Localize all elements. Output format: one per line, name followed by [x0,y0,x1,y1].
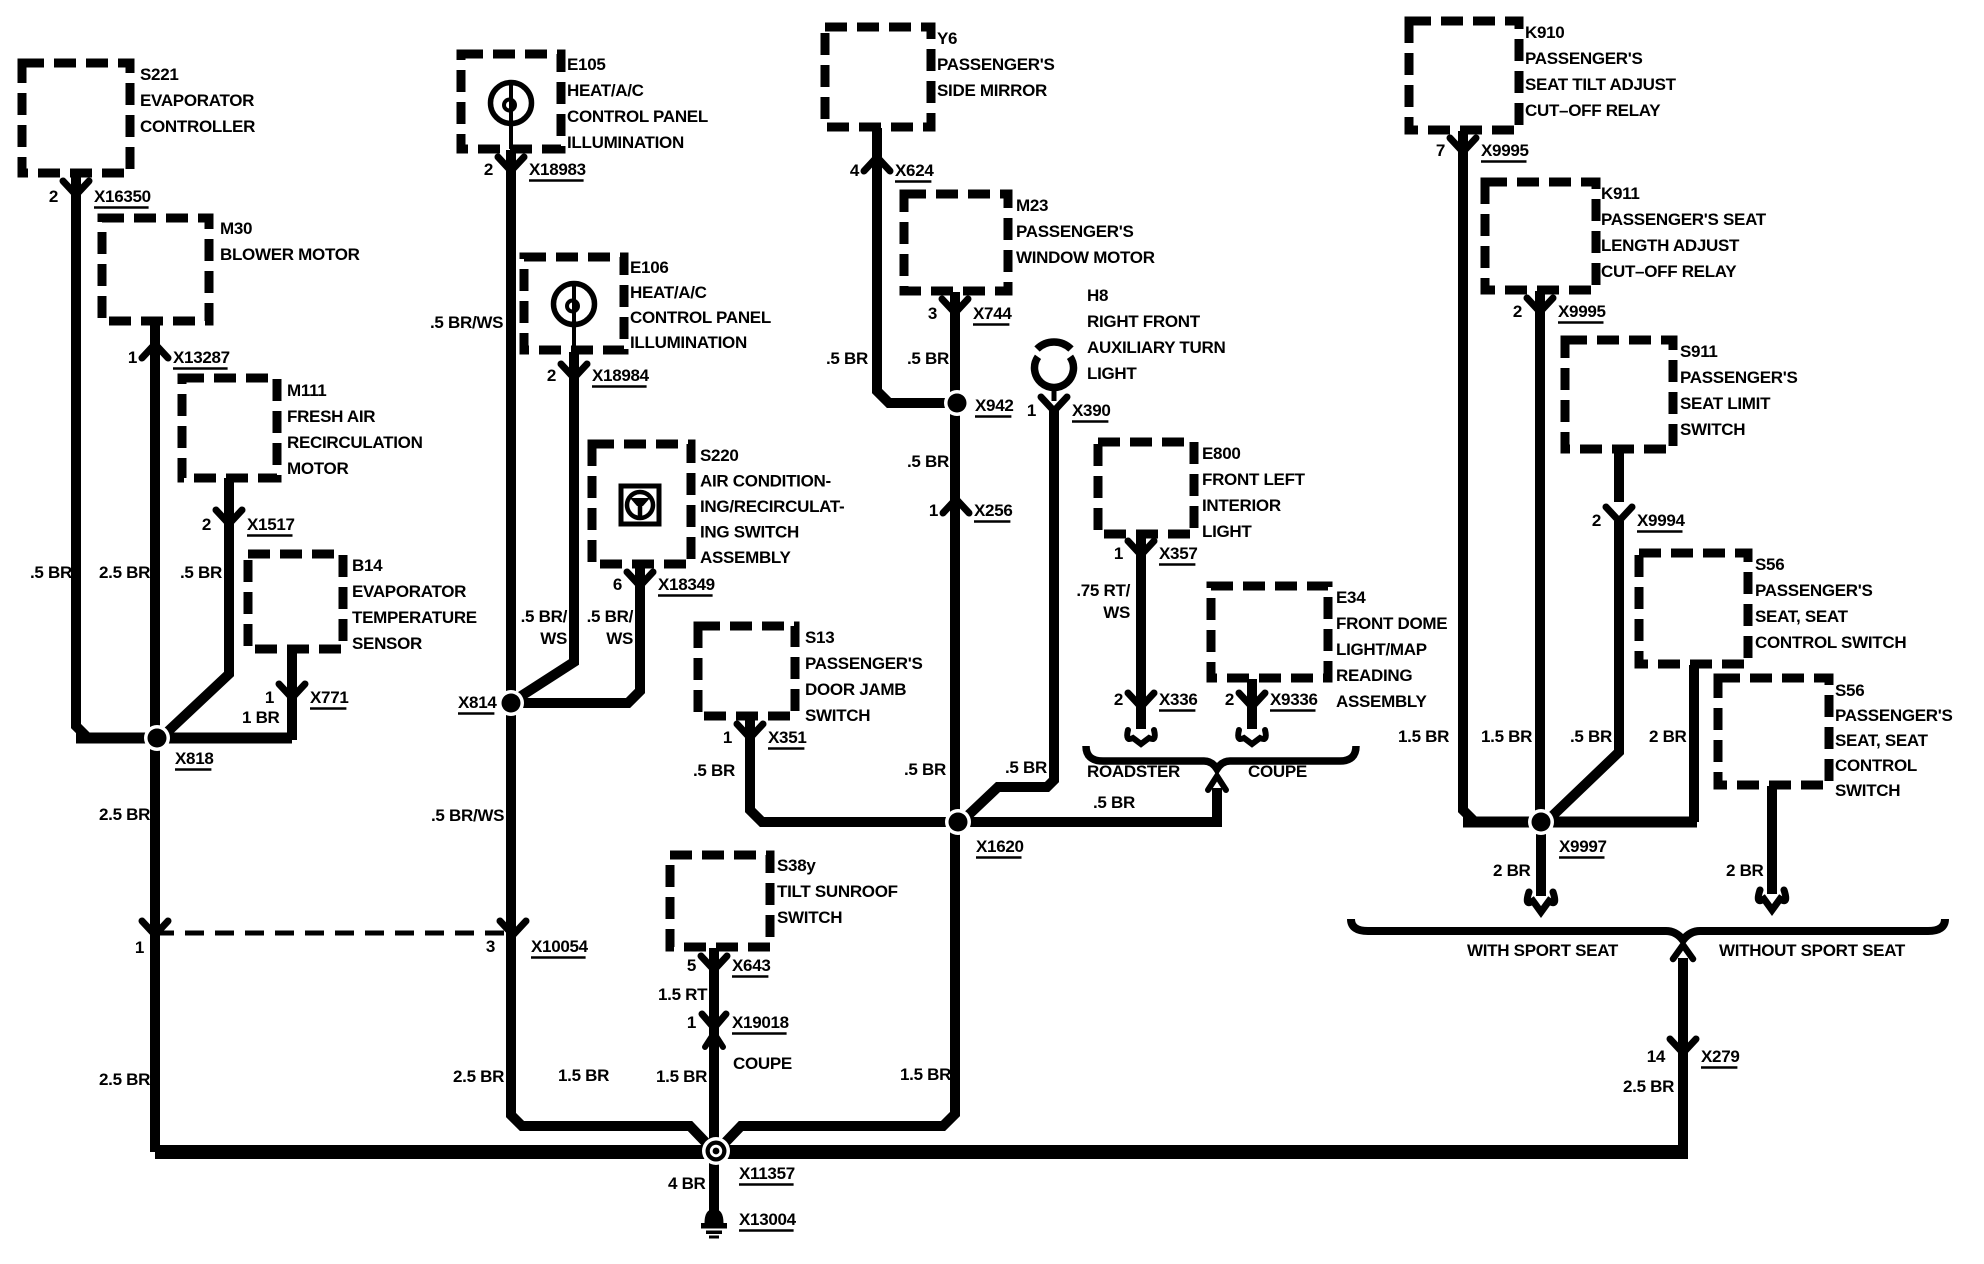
connector pin arrow X10054 pin 3 [500,921,526,935]
svg-text:5: 5 [687,956,696,975]
svg-text:X643: X643 [732,956,771,975]
component box M30 blower motor [102,218,209,321]
svg-text:X9995: X9995 [1558,302,1606,321]
connector pin arrow X18984 pin 2 [561,364,587,378]
svg-text:X279: X279 [1701,1047,1740,1066]
wire S56b tail 2 BR [1767,786,1777,894]
wire X11357 to ground 4 BR [709,1152,719,1212]
junction node X814 [498,690,524,716]
pin/connector label X13004 label [739,1210,797,1231]
svg-text:X351: X351 [768,728,807,747]
svg-text:LIGHT: LIGHT [1202,522,1252,541]
connector pin arrow X1517 pin 2 [216,510,242,524]
svg-text:DOOR JAMB: DOOR JAMB [805,680,906,699]
component box E34 front dome light/map reading assembly [1211,586,1328,678]
svg-text:CONTROL PANEL: CONTROL PANEL [567,107,708,126]
svg-text:3: 3 [928,304,937,323]
svg-text:S221: S221 [140,65,179,84]
svg-text:WS: WS [606,629,633,648]
svg-text:ING SWITCH: ING SWITCH [700,523,799,542]
svg-text:2.5 BR: 2.5 BR [453,1067,504,1086]
label text S221 [140,65,255,136]
svg-text:WITHOUT SPORT SEAT: WITHOUT SPORT SEAT [1719,941,1906,960]
svg-text:1: 1 [723,728,732,747]
connector pin arrow X13287 pin 1 [142,344,168,358]
svg-text:X942: X942 [975,396,1014,415]
label text S56a [1755,555,1906,652]
svg-text:.5 BR/WS: .5 BR/WS [430,313,503,332]
connector pin arrow X336 pin 2 [1128,693,1154,707]
svg-text:WINDOW MOTOR: WINDOW MOTOR [1016,248,1155,267]
wire E800 pin1 to X336 [1136,535,1146,729]
svg-text:WITH SPORT SEAT: WITH SPORT SEAT [1467,941,1619,960]
svg-text:S220: S220 [700,446,739,465]
pin/connector label X18984 [547,366,650,387]
svg-text:LIGHT/MAP: LIGHT/MAP [1336,640,1427,659]
connector pin arrow X19018 lower half [705,1033,723,1047]
wire E106 pin2 diagonal to X814 [515,352,574,700]
ground symbol X13004 [701,1209,727,1239]
component box M111 fresh air recirculation motor [182,378,277,478]
svg-text:.5 BR: .5 BR [180,563,222,582]
wire B14 pin1 to X818 bus [287,650,297,740]
pin/connector label X9995 K911 [1513,302,1606,323]
svg-text:X9997: X9997 [1559,837,1607,856]
svg-text:.5 BR: .5 BR [907,452,949,471]
component box S56 passenger's seat control switch (standard) [1718,678,1829,785]
pin/connector label X942 label [975,396,1014,417]
svg-text:2.5 BR: 2.5 BR [99,1070,150,1089]
wire X279 wire down to main bus [1678,958,1688,1152]
svg-text:SWITCH: SWITCH [1835,781,1900,800]
wire S911 pin2 upper [1614,450,1624,502]
svg-text:.5 BR: .5 BR [826,349,868,368]
svg-text:2: 2 [202,515,211,534]
wire M23 pin3 down through X942 and X1620 to X11357 [719,292,955,1149]
svg-text:SWITCH: SWITCH [777,908,842,927]
svg-text:CONTROLLER: CONTROLLER [140,117,255,136]
connector pin arrow X9995 pin 7 [1450,138,1476,152]
svg-text:READING: READING [1336,666,1412,685]
svg-text:3: 3 [486,937,495,956]
label text S56b [1835,681,1953,800]
svg-text:2 BR: 2 BR [1493,861,1531,880]
svg-text:PASSENGER'S: PASSENGER'S [1016,222,1134,241]
svg-text:2: 2 [1114,690,1123,709]
pin/connector label X16350 [49,187,151,208]
svg-text:X390: X390 [1072,401,1111,420]
pin/connector label X18349 [613,575,715,596]
pin/connector label X357 [1114,544,1198,565]
svg-text:INTERIOR: INTERIOR [1202,496,1281,515]
svg-text:CONTROL SWITCH: CONTROL SWITCH [1755,633,1906,652]
connector pin arrow X279 pin 14 [1670,1039,1696,1053]
pin/connector label X818 label [175,749,214,770]
label text E34 [1336,588,1447,711]
svg-text:X9336: X9336 [1270,690,1318,709]
connector pin arrow X9336 pin 2 [1239,693,1265,707]
component box K910 passenger's seat tilt adjust cut-off relay [1409,21,1519,130]
svg-text:.5 BR: .5 BR [904,760,946,779]
svg-text:X9995: X9995 [1481,141,1529,160]
svg-text:2.5 BR: 2.5 BR [99,563,150,582]
svg-text:SEAT TILT ADJUST: SEAT TILT ADJUST [1525,75,1677,94]
svg-text:PASSENGER'S: PASSENGER'S [1755,581,1873,600]
label text E800 [1202,444,1306,541]
svg-text:2: 2 [49,187,58,206]
svg-text:X814: X814 [458,693,497,712]
wire X9997 tail 2 BR [1536,822,1546,896]
svg-text:ASSEMBLY: ASSEMBLY [700,548,791,567]
wire S56a to X9997 bus [1689,665,1699,822]
label text S220 [700,446,844,567]
svg-text:.5 BR: .5 BR [1093,793,1135,812]
svg-text:AIR CONDITION-: AIR CONDITION- [700,472,831,491]
svg-text:1.5 BR: 1.5 BR [1481,727,1532,746]
svg-text:2 BR: 2 BR [1649,727,1687,746]
connector socket X9336 socket half [1238,730,1266,744]
svg-text:X13287: X13287 [173,348,230,367]
svg-text:RECIRCULATION: RECIRCULATION [287,433,423,452]
svg-text:Y6: Y6 [937,29,957,48]
svg-text:.5 BR: .5 BR [907,349,949,368]
svg-text:2.5 BR: 2.5 BR [99,805,150,824]
pin/connector label X18983 [484,160,586,181]
svg-text:B14: B14 [352,556,383,575]
svg-text:ROADSTER: ROADSTER [1087,762,1180,781]
connector pin arrow brace2 center arrow [1673,945,1693,959]
svg-text:S911: S911 [1680,342,1718,361]
svg-text:SENSOR: SENSOR [352,634,422,653]
component box Y6 passenger's side mirror [825,27,931,127]
recirculation switch icon S220 icon [621,486,659,524]
svg-text:S13: S13 [805,628,834,647]
wire S220 pin6 to X814 bus [511,566,640,703]
svg-text:1: 1 [265,688,274,707]
svg-text:1: 1 [135,938,144,957]
component box E106 heat/ac control panel illumination [524,257,624,350]
pin/connector label X9995 K910 [1436,141,1529,162]
pin/connector label X744 [928,304,1013,325]
svg-text:1.5 BR: 1.5 BR [558,1066,609,1085]
svg-text:LENGTH ADJUST: LENGTH ADJUST [1601,236,1740,255]
svg-text:1: 1 [1027,401,1036,420]
svg-text:TILT SUNROOF: TILT SUNROOF [777,882,898,901]
connector pin arrow X9995 pin 2 [1527,298,1553,312]
svg-text:4 BR: 4 BR [668,1174,706,1193]
svg-text:X19018: X19018 [732,1013,789,1032]
svg-text:SIDE MIRROR: SIDE MIRROR [937,81,1047,100]
wire S38y pin5 to X11357 [709,948,719,1152]
label text S13 [805,628,923,725]
svg-text:PASSENGER'S: PASSENGER'S [805,654,923,673]
svg-text:X9994: X9994 [1637,511,1686,530]
wire M30 pin1 down through X818 to main ground bus [150,322,160,1152]
pin/connector label X19018 [687,1013,789,1034]
svg-text:AUXILIARY TURN: AUXILIARY TURN [1087,338,1225,357]
label text S911 [1680,342,1798,439]
connector pin arrow X643 pin 5 [701,956,727,970]
wire main ground bus to X11357 [155,1145,1688,1159]
svg-text:6: 6 [613,575,622,594]
svg-text:X13004: X13004 [739,1210,797,1229]
connector pin arrow X256 pin 1 [943,499,969,513]
svg-text:E34: E34 [1336,588,1366,607]
wire E34 pin2 to X9336 [1247,679,1257,729]
svg-text:1: 1 [128,348,137,367]
svg-text:.5 BR: .5 BR [693,761,735,780]
component box S911 passenger's seat limit switch [1565,340,1673,449]
svg-text:PASSENGER'S: PASSENGER'S [1525,49,1643,68]
svg-text:PASSENGER'S: PASSENGER'S [1835,706,1953,725]
svg-text:RIGHT FRONT: RIGHT FRONT [1087,312,1201,331]
svg-text:X357: X357 [1159,544,1198,563]
lamp symbol E105 bulb [491,83,532,150]
svg-text:FRONT DOME: FRONT DOME [1336,614,1447,633]
svg-text:X744: X744 [973,304,1012,323]
connector socket X336 socket half [1127,730,1155,744]
svg-text:7: 7 [1436,141,1445,160]
pin/connector label X11357 label [739,1164,795,1185]
svg-text:PASSENGER'S: PASSENGER'S [937,55,1055,74]
label text M111 [287,381,423,478]
component box S56 passenger's seat control switch (sport) [1639,553,1748,664]
wire brace center to X1620 bus [966,788,1217,822]
svg-text:M30: M30 [220,219,252,238]
pin/connector label X13287 [128,348,230,369]
pin/connector label X814 label [458,693,497,714]
svg-text:ING/RECIRCULAT-: ING/RECIRCULAT- [700,497,844,516]
svg-text:COUPE: COUPE [1248,762,1307,781]
connector pin arrow X744 pin 3 [942,299,968,313]
svg-text:X10054: X10054 [531,937,589,956]
pin/connector label X624 [850,161,935,182]
svg-text:2: 2 [1513,302,1522,321]
wire X9997 bus [1463,817,1697,828]
svg-text:S56: S56 [1755,555,1784,574]
connector pin arrow X16350 pin 2 [63,181,89,195]
svg-text:2.5 BR: 2.5 BR [1623,1077,1674,1096]
wire K911 pin2 to X9997 [1535,291,1545,822]
svg-text:.5 BR/WS: .5 BR/WS [431,806,504,825]
pin/connector label X279 [1647,1047,1740,1068]
label text H8 [1087,286,1225,383]
svg-text:EVAPORATOR: EVAPORATOR [140,91,254,110]
pin/connector label X9997 label [1559,837,1607,858]
svg-text:X818: X818 [175,749,214,768]
svg-text:X771: X771 [310,688,349,707]
junction node X9997 [1528,809,1554,835]
component box E105 heat/ac control panel illumination [461,54,561,149]
svg-text:X11357: X11357 [739,1164,795,1183]
svg-text:1.5 BR: 1.5 BR [1398,727,1449,746]
svg-text:E106: E106 [630,258,669,277]
svg-text:2 BR: 2 BR [1726,861,1764,880]
connector pin arrow X357 pin 1 [1128,541,1154,555]
svg-text:M23: M23 [1016,196,1048,215]
svg-text:SWITCH: SWITCH [805,706,870,725]
pin/connector label X336 [1114,690,1198,711]
junction node X818 [144,725,170,751]
svg-text:1.5 BR: 1.5 BR [656,1067,707,1086]
svg-text:1.5 BR: 1.5 BR [900,1065,951,1084]
svg-text:BLOWER MOTOR: BLOWER MOTOR [220,245,360,264]
connector pin arrow brace1 center arrow [1208,776,1226,790]
svg-text:SWITCH: SWITCH [1680,420,1745,439]
label text M30 [220,219,360,264]
pin/connector label X9994 [1592,511,1686,532]
svg-text:K911: K911 [1601,184,1640,203]
component box E800 front left interior light [1098,442,1194,534]
svg-text:WS: WS [540,629,567,648]
svg-text:PASSENGER'S: PASSENGER'S [1680,368,1798,387]
component box M23 passenger's window motor [904,194,1008,291]
wire X818 bus [76,733,292,744]
pin/connector label X390 [1027,401,1111,422]
label text M23 [1016,196,1155,267]
wire S221 pin2 to X818 bus [76,172,88,738]
svg-text:14: 14 [1647,1047,1666,1066]
pin/connector label X771 [265,688,349,709]
svg-text:1: 1 [1114,544,1123,563]
svg-text:SEAT, SEAT: SEAT, SEAT [1835,731,1929,750]
svg-text:SEAT, SEAT: SEAT, SEAT [1755,607,1849,626]
svg-text:1 BR: 1 BR [242,708,280,727]
connector pin arrow X351 pin 1 [737,724,763,738]
brace with/without sport seat [1351,919,1945,940]
svg-text:.5 BR: .5 BR [1005,758,1047,777]
svg-text:.5 BR/: .5 BR/ [521,607,568,626]
svg-text:LIGHT: LIGHT [1087,364,1137,383]
svg-text:SEAT LIMIT: SEAT LIMIT [1680,394,1771,413]
connector pin arrow X18983 pin 2 [498,157,524,171]
svg-text:2: 2 [1592,511,1601,530]
svg-text:ASSEMBLY: ASSEMBLY [1336,692,1427,711]
svg-text:4: 4 [850,161,860,180]
svg-text:X1620: X1620 [976,837,1024,856]
component box S38y tilt sunroof switch [670,855,770,947]
connector pin arrow X9994 pin 2 [1606,507,1632,521]
pin/connector label X9336 [1225,690,1318,711]
label text E106 [630,258,771,352]
turn light symbol H8 right front auxiliary turn light [1035,342,1074,401]
svg-text:X336: X336 [1159,690,1198,709]
svg-text:M111: M111 [287,381,326,400]
component box K911 passenger's seat length adjust cut-off relay [1485,182,1596,290]
label text K910 [1525,23,1677,120]
terminal arrow X9997 branch terminal [1527,892,1555,912]
pin/connector label pin 1 dashed left [135,938,144,957]
svg-text:HEAT/A/C: HEAT/A/C [630,283,707,302]
svg-text:E800: E800 [1202,444,1241,463]
junction node X1620 [945,809,971,835]
svg-text:S56: S56 [1835,681,1864,700]
svg-text:FRESH AIR: FRESH AIR [287,407,375,426]
connector pin arrow X18349 pin 6 [627,572,653,586]
label text B14 [352,556,477,653]
component box S13 passenger's door jamb switch [698,626,795,716]
svg-text:CUT–OFF RELAY: CUT–OFF RELAY [1601,262,1737,281]
wire E105 pin2 down through X814 to X11357 [511,150,712,1149]
connector pin arrow X10054 pin 1 [142,921,168,935]
svg-text:X256: X256 [974,501,1013,520]
label text E105 [567,55,708,152]
svg-text:S38y: S38y [777,856,816,875]
svg-text:MOTOR: MOTOR [287,459,348,478]
svg-text:FRONT LEFT: FRONT LEFT [1202,470,1306,489]
svg-text:CONTROL: CONTROL [1835,756,1917,775]
svg-text:E105: E105 [567,55,606,74]
wire H8 pin1 diagonal to X1620 [960,410,1054,823]
junction node X942 [944,390,970,416]
wire M111 pin2 diagonal to X818 [163,478,229,736]
svg-text:ILLUMINATION: ILLUMINATION [630,333,747,352]
wire S911 X9994 diagonal to X9997 bus [1547,521,1619,821]
svg-text:.5 BR: .5 BR [30,563,72,582]
svg-text:X624: X624 [895,161,934,180]
svg-text:2: 2 [1225,690,1234,709]
svg-text:.75 RT/: .75 RT/ [1076,581,1130,600]
lamp symbol E106 bulb [554,284,595,351]
component box S220 air conditioning/recirculating switch assembly [592,444,691,564]
pin/connector label X1620 label [976,837,1024,858]
svg-text:1.5 RT: 1.5 RT [658,985,708,1004]
svg-text:1: 1 [687,1013,696,1032]
junction node X11357 [702,1137,730,1165]
svg-text:PASSENGER'S SEAT: PASSENGER'S SEAT [1601,210,1767,229]
svg-text:K910: K910 [1525,23,1564,42]
svg-text:X18349: X18349 [658,575,715,594]
svg-text:X18983: X18983 [529,160,586,179]
component box S221 evaporator controller [22,63,130,173]
svg-text:H8: H8 [1087,286,1108,305]
pin/connector label X351 [723,728,807,749]
connector pin arrow X390 pin 1 [1041,397,1067,411]
wire Y6 pin4 to X942 [877,128,957,403]
label text Y6 [937,29,1055,100]
wire K910 pin7 to X9997 bus [1463,131,1475,822]
svg-text:WS: WS [1103,603,1130,622]
svg-text:2: 2 [547,366,556,385]
pin/connector label X10054 [486,937,589,958]
pin/connector label X1517 [202,515,295,536]
svg-text:.5 BR: .5 BR [1570,727,1612,746]
pin/connector label X256 [929,501,1013,522]
svg-text:1: 1 [929,501,938,520]
connector pin arrow X624 pin 4 [864,157,890,171]
svg-text:.5 BR/: .5 BR/ [587,607,634,626]
svg-text:EVAPORATOR: EVAPORATOR [352,582,466,601]
component box B14 evaporator temperature sensor [248,554,343,649]
terminal arrow S56b branch terminal [1758,890,1786,910]
svg-text:X16350: X16350 [94,187,151,206]
svg-text:ILLUMINATION: ILLUMINATION [567,133,684,152]
wire S13 pin1 to X1620 [750,718,958,822]
svg-text:TEMPERATURE: TEMPERATURE [352,608,477,627]
svg-text:X18984: X18984 [592,366,650,385]
label text S38y [777,856,898,927]
brace roadster/coupe alternatives [1086,746,1356,769]
svg-text:CONTROL PANEL: CONTROL PANEL [630,308,771,327]
svg-text:X1517: X1517 [247,515,295,534]
svg-text:COUPE: COUPE [733,1054,792,1073]
dashed option wire pin1 to pin3 X10054 [155,931,513,936]
svg-text:HEAT/A/C: HEAT/A/C [567,81,644,100]
svg-text:CUT–OFF RELAY: CUT–OFF RELAY [1525,101,1661,120]
label text K911 [1601,184,1767,281]
connector pin arrow X771 pin 1 [279,684,305,698]
pin/connector label X643 [687,956,771,977]
